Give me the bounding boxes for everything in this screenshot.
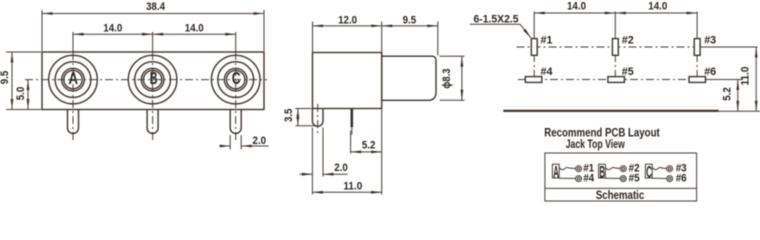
svg-text:5.2: 5.2 (362, 139, 376, 151)
svg-text:#6: #6 (676, 173, 687, 185)
svg-text:14.0: 14.0 (185, 23, 204, 35)
svg-text:#4: #4 (541, 66, 554, 78)
svg-text:38.4: 38.4 (146, 1, 166, 13)
svg-text:B: B (150, 68, 158, 88)
svg-text:#2: #2 (622, 35, 634, 47)
svg-text:12.0: 12.0 (338, 14, 357, 26)
svg-text:5.2: 5.2 (722, 87, 734, 101)
svg-text:9.5: 9.5 (0, 71, 11, 85)
svg-text:9.5: 9.5 (403, 14, 417, 26)
svg-text:5.0: 5.0 (15, 87, 27, 101)
svg-text:#6: #6 (704, 66, 716, 78)
svg-text:2.0: 2.0 (334, 162, 348, 174)
svg-text:#5: #5 (622, 66, 634, 78)
svg-text:#4: #4 (583, 173, 595, 185)
svg-text:Schematic: Schematic (596, 188, 645, 202)
svg-text:#5: #5 (629, 173, 640, 185)
svg-text:#3: #3 (704, 35, 716, 47)
svg-text:C: C (232, 68, 241, 88)
svg-text:A: A (553, 163, 559, 182)
svg-text:14.0: 14.0 (648, 1, 667, 13)
svg-text:#1: #1 (541, 35, 553, 47)
svg-text:Jack Top View: Jack Top View (566, 138, 626, 151)
svg-text:14.0: 14.0 (567, 1, 586, 13)
svg-text:11.0: 11.0 (343, 180, 362, 192)
svg-text:2.0: 2.0 (253, 135, 267, 147)
svg-text:11.0: 11.0 (740, 67, 752, 86)
svg-text:14.0: 14.0 (103, 23, 122, 35)
svg-text:3.5: 3.5 (283, 109, 295, 123)
svg-text:ϕ8.3: ϕ8.3 (441, 69, 453, 89)
svg-text:B: B (599, 163, 605, 182)
svg-text:C: C (646, 163, 652, 182)
